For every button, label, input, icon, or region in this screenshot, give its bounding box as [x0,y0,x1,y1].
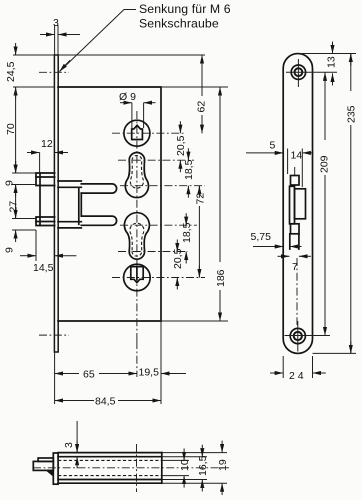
svg-text:Senkschraube: Senkschraube [139,17,219,31]
left tab upper [36,173,55,186]
dimension 84,5 [55,400,94,402]
svg-text:186: 186 [215,269,227,287]
dimension 209 [324,72,326,140]
plate top extension line [13,54,205,56]
centerline keyhole lower small [118,251,188,253]
dimension 27 [15,185,17,219]
faceplate extension lines above [54,25,56,55]
fork lower block [58,222,81,228]
follower hole top (circle) [124,120,150,146]
dimension 70 [15,87,17,173]
faceplate (edge view, filled section) [54,55,58,352]
case top extension left [13,86,55,88]
countersunk screw hole centerline top [39,71,69,73]
dimension 19 [221,441,223,453]
follower square insert bottom [131,267,143,283]
axis dash above cutout [294,167,296,176]
svg-text:18,5: 18,5 [183,159,195,180]
case hidden line lower [58,475,162,477]
centerline keyhole lower large [120,224,197,226]
keyhole lower hidden contour [130,223,144,256]
top screw hole outer [291,65,305,79]
svg-text:235: 235 [346,105,358,123]
dimension 7 [278,255,290,257]
countersunk screw hole centerline bottom [39,334,69,336]
svg-text:5,75: 5,75 [251,231,272,243]
plate centre axis dash-dot [296,258,298,325]
svg-text:12: 12 [41,138,53,150]
left middle recess bar [39,186,41,218]
dimension 62 [201,55,203,96]
follower hole bottom (circle) [124,264,151,291]
face plate outline rounded [283,54,312,354]
latch slot below [290,234,299,249]
svg-text:20,5: 20,5 [175,135,187,156]
keyhole upper (cylinder hole) [125,153,148,198]
svg-text:62: 62 [196,101,208,113]
svg-text:84,5: 84,5 [95,396,116,408]
centerline keyhole upper large [120,185,205,187]
centerline through bottom hole [112,277,205,279]
dimension 186 [219,87,221,262]
svg-text:19: 19 [217,459,229,471]
latch cutout bottom square [291,224,300,234]
latch cutout right rect [295,189,306,219]
fork base bar [79,187,82,224]
svg-text:27: 27 [8,201,20,213]
extension lines right of case [162,452,227,454]
follower square insert top [132,125,143,139]
staple upper lip [38,458,53,461]
svg-text:10: 10 [179,459,191,471]
left tab lower [36,217,55,226]
case end vertical [161,453,163,484]
svg-text:19,5: 19,5 [139,367,160,379]
latch cutout left bar [290,186,295,224]
leader line to countersunk hole [60,10,137,72]
dimension 235 [340,53,356,55]
svg-text:3: 3 [63,442,75,448]
keyhole upper hidden contour [130,156,143,189]
case bottom view outer top line [58,452,162,454]
dimension 20,5 lower [176,240,178,252]
staple diagonal wedge [46,470,54,476]
svg-text:70: 70 [5,123,17,135]
dimension 9 lower [12,218,36,220]
dimension 16,5 [201,445,203,457]
svg-text:7: 7 [292,261,298,273]
svg-text:5: 5 [270,140,276,152]
case bottom extension line [161,320,228,322]
bottom screw hole outer [290,328,305,343]
svg-text:2 4: 2 4 [289,370,304,382]
top screw crosshair [297,59,299,87]
svg-text:24,5: 24,5 [5,61,17,82]
svg-text:20,5: 20,5 [172,248,184,269]
dimension 24,5 [15,43,17,55]
svg-text:72: 72 [195,193,207,205]
svg-text:209: 209 [319,155,331,173]
lock case outline [58,87,161,321]
svg-text:14,5: 14,5 [33,262,54,274]
case right extension line down [160,321,162,404]
dimension 24 [282,356,284,378]
bottom view horizontal axis [33,467,229,469]
top screw hole inner [295,68,303,76]
fork upper prong [81,184,116,193]
svg-text:14: 14 [291,150,303,162]
latch cutout top square [291,176,300,186]
svg-text:Ø 9: Ø 9 [119,91,136,103]
dimension 5 and 14 [246,152,283,154]
dimension 10 [183,448,185,460]
staple block [33,461,53,470]
svg-text:9: 9 [4,180,16,186]
dimension 5,75 [253,246,283,248]
svg-text:16,5: 16,5 [197,455,209,476]
bottom screw crosshair [297,321,299,352]
dimension 18,5 upper [187,148,189,160]
svg-text:Senkung für M 6: Senkung für M 6 [139,2,231,16]
vertical hole axis centerline [136,111,138,341]
svg-text:3: 3 [53,17,59,29]
case bottom view top line [58,456,162,458]
svg-text:65: 65 [83,369,95,381]
case bottom view outer bottom line [58,482,162,484]
dimension 19,5 [161,373,186,375]
dimension 3 bottom view [76,421,78,452]
fork upper block [58,181,81,187]
plate left extension line down [54,352,56,404]
bottom view vertical axis [136,444,138,492]
svg-text:13: 13 [326,56,338,68]
dimension 65 [55,373,79,375]
fork lower prong [81,216,116,225]
centerline keyhole upper small [118,159,194,161]
bottom screw hole inner [294,332,302,340]
svg-text:9: 9 [4,247,16,253]
keyhole lower (cylinder hole inverted) [124,213,149,259]
dimension 14,5 [35,230,37,261]
case hidden line upper [58,459,162,461]
dimension 20,5 upper [179,121,181,133]
dimension 72 [198,186,200,188]
case top extension line [161,86,228,88]
dimension 18,5 lower [185,213,187,225]
dimension 13 [302,53,340,55]
plate end strip [53,453,58,484]
centerline through top hole [112,132,186,134]
dimension 9 upper [12,172,36,174]
svg-text:18,5: 18,5 [181,222,193,243]
case bottom view bottom line [58,479,162,481]
